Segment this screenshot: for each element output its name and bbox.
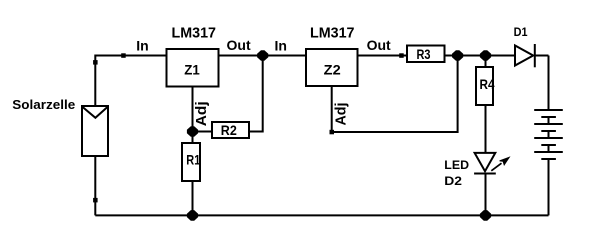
svg-text:D2: D2 bbox=[444, 174, 462, 188]
svg-text:LM317: LM317 bbox=[172, 25, 217, 42]
svg-text:R3: R3 bbox=[417, 46, 431, 62]
svg-text:Z1: Z1 bbox=[184, 61, 200, 77]
svg-text:In: In bbox=[275, 37, 287, 53]
svg-text:Adj: Adj bbox=[333, 103, 350, 126]
svg-text:D1: D1 bbox=[514, 25, 528, 39]
svg-text:R1: R1 bbox=[186, 152, 200, 168]
svg-text:Out: Out bbox=[227, 37, 251, 53]
svg-text:R2: R2 bbox=[221, 122, 237, 138]
svg-text:R4: R4 bbox=[480, 76, 495, 92]
svg-text:LM317: LM317 bbox=[310, 25, 355, 42]
svg-text:Out: Out bbox=[367, 37, 391, 53]
svg-text:In: In bbox=[136, 37, 148, 53]
svg-text:Z2: Z2 bbox=[324, 61, 341, 77]
svg-text:Adj: Adj bbox=[193, 101, 210, 126]
svg-text:Solarzelle: Solarzelle bbox=[12, 97, 75, 112]
svg-text:LED: LED bbox=[444, 158, 469, 172]
